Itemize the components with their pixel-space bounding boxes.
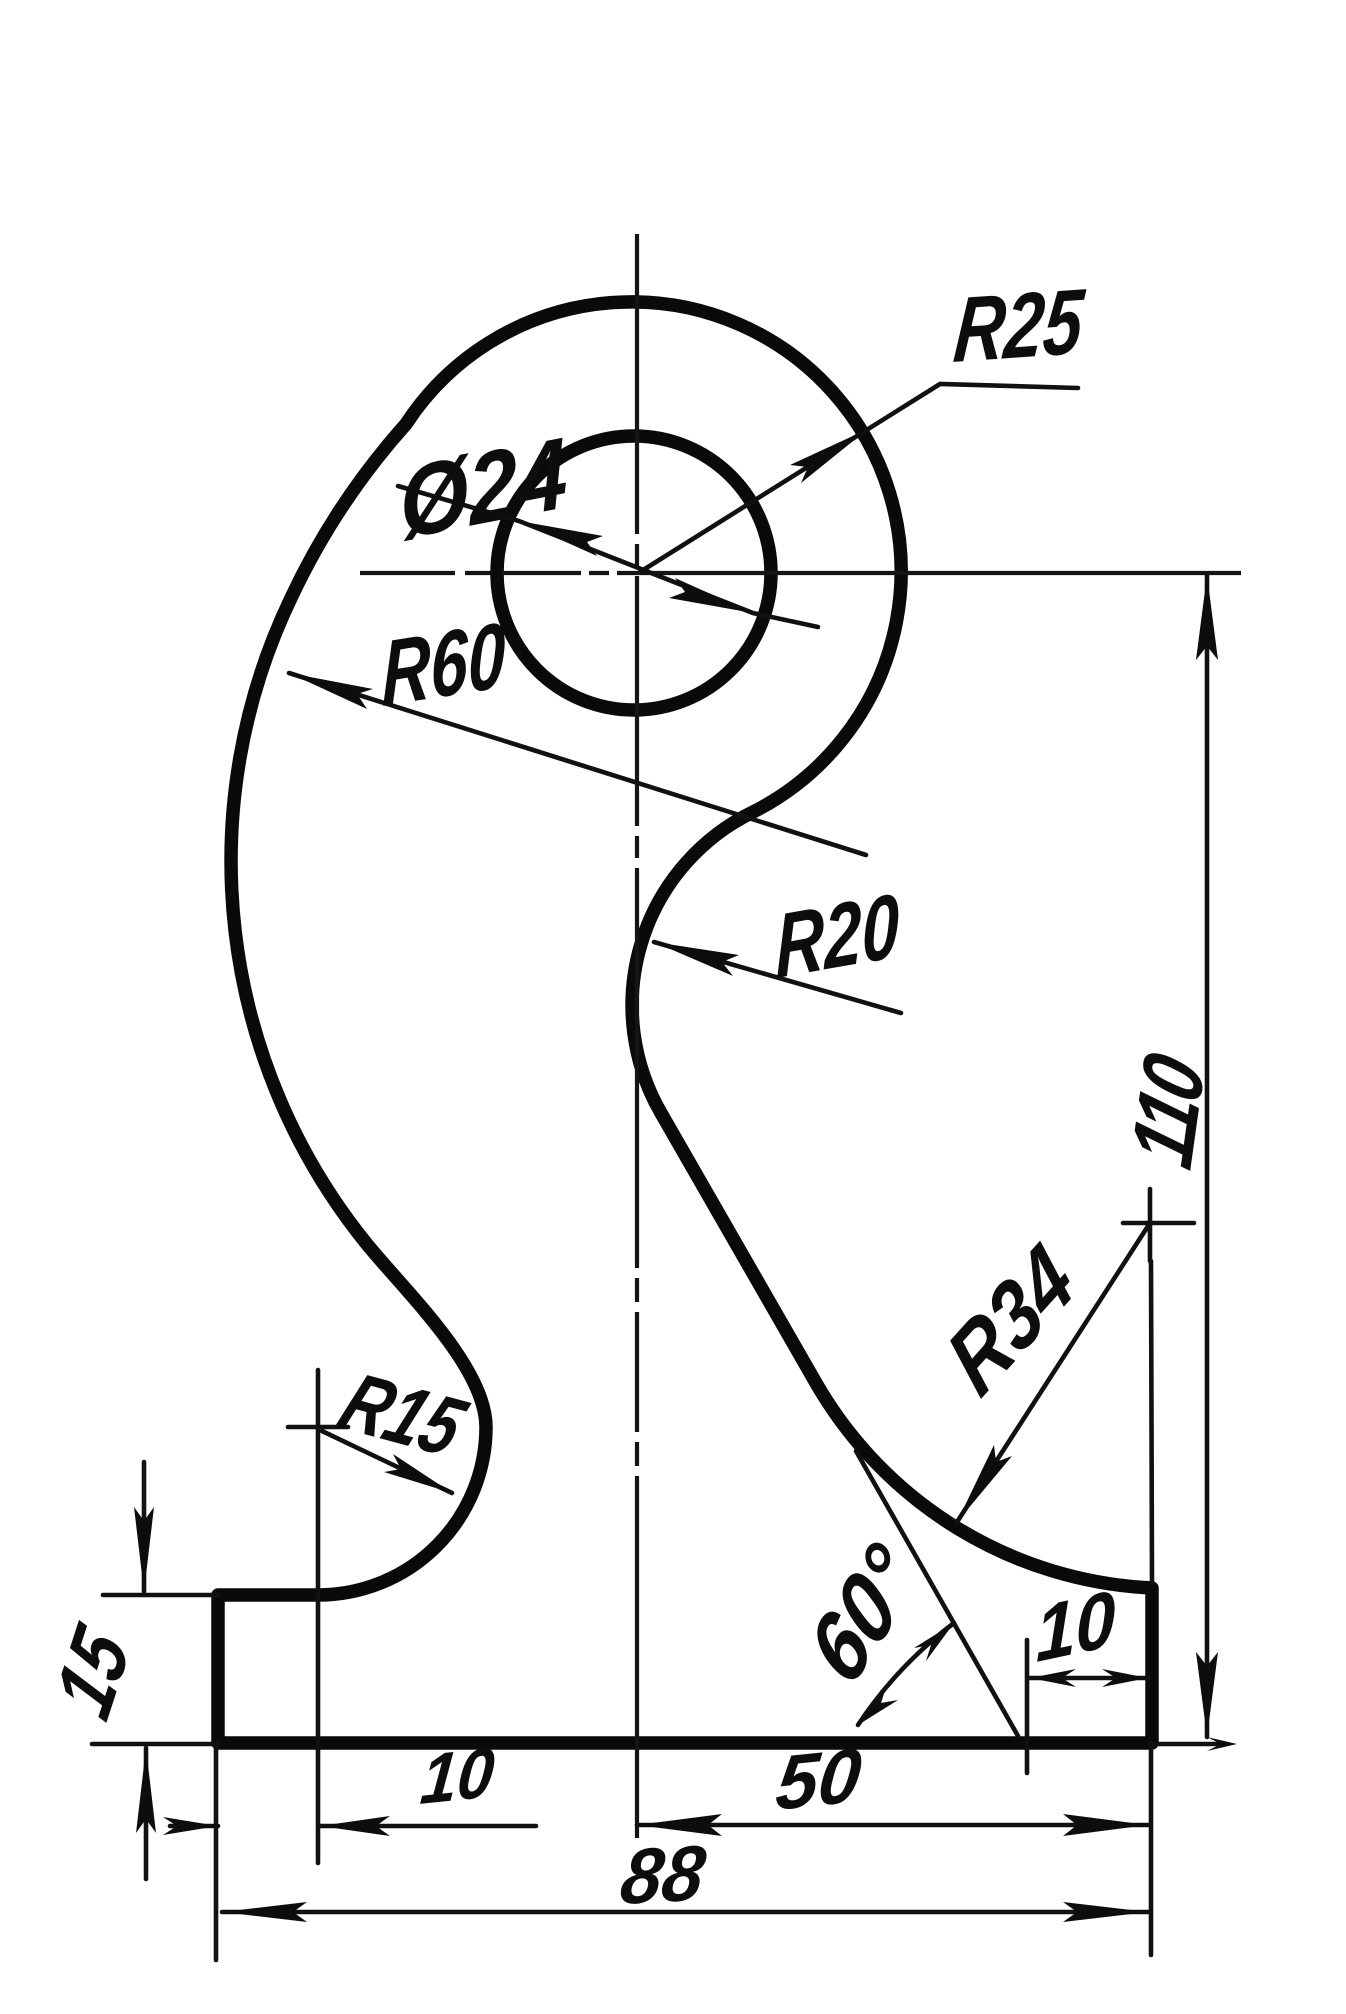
dia24 arrow left <box>519 521 603 556</box>
svg-text:50: 50 <box>772 1732 865 1827</box>
horizontal centerline <box>360 571 1241 575</box>
dim110 bottom ext line with end mark <box>1152 1742 1225 1747</box>
svg-text:10: 10 <box>1035 1574 1116 1679</box>
R34 arrow <box>957 1445 1012 1522</box>
R15 arrow <box>384 1454 452 1493</box>
dim15 dimension line + arrows <box>144 1462 146 1879</box>
dim10L dimension line <box>170 1824 536 1829</box>
dim15 ext line top (step) <box>103 1593 218 1598</box>
vertical centerline <box>635 234 639 1838</box>
svg-text:10: 10 <box>418 1732 498 1819</box>
dim110 dimension line <box>1205 575 1210 1737</box>
dim50 dimension line <box>637 1823 1148 1828</box>
dia24 arrow right <box>669 578 753 613</box>
dim10L ext line (left edge, below) <box>214 1743 219 1960</box>
dim10R dimension line <box>1030 1676 1148 1681</box>
dim10R ext line <box>1025 1640 1030 1773</box>
R34 extension line down to part edge <box>1151 1261 1152 1582</box>
R20 leader <box>654 942 901 1013</box>
svg-text:R20: R20 <box>775 875 900 999</box>
R34 leader <box>957 1223 1150 1522</box>
R34 center cross <box>1123 1189 1194 1261</box>
svg-text:Ø24: Ø24 <box>396 417 570 561</box>
part outline <box>218 302 1152 1743</box>
dim15 ext line bottom <box>92 1742 218 1747</box>
R15 center vertical / ext line for dim 10 <box>316 1370 321 1863</box>
svg-text:88: 88 <box>615 1829 711 1921</box>
R25 arrow <box>790 429 868 483</box>
R25 leader <box>640 384 1078 572</box>
svg-text:R60: R60 <box>382 603 505 726</box>
dim50 right ext line <box>1149 1743 1154 1955</box>
hole circle O24 <box>497 436 771 710</box>
R60 arrow <box>289 673 373 709</box>
svg-text:R15: R15 <box>327 1356 480 1473</box>
R15 leader <box>322 1431 452 1493</box>
dim88 dimension line <box>222 1910 1148 1915</box>
dia24 leader <box>398 486 818 627</box>
60deg angle arc double arrow <box>858 1623 954 1725</box>
R15 center cross <box>288 1425 348 1430</box>
svg-text:R34: R34 <box>931 1225 1092 1416</box>
60deg thin extension line <box>856 1451 1018 1736</box>
svg-text:R25: R25 <box>950 270 1088 383</box>
R20 arrow <box>654 942 739 976</box>
R60 leader <box>289 673 866 855</box>
svg-text:15: 15 <box>38 1611 147 1733</box>
